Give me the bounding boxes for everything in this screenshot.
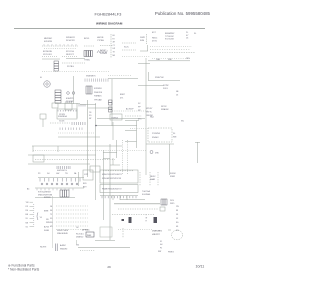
svg-text:S1: S1 — [26, 226, 28, 228]
svg-text:9WGBCR: 9WGBCR — [66, 37, 75, 39]
svg-text:NEXX: NEXX — [150, 176, 156, 178]
svg-text:RXNZYM: RXNZYM — [155, 77, 164, 79]
svg-text:* Non-Illustrated Parts: * Non-Illustrated Parts — [8, 267, 40, 271]
svg-text:KTKG2ZNS59: KTKG2ZNS59 — [38, 192, 52, 194]
svg-text:H3DP8T: H3DP8T — [152, 234, 160, 236]
svg-text:8WE: 8WE — [44, 211, 49, 213]
svg-text:88: 88 — [176, 210, 178, 212]
svg-text:H00YB: H00YB — [97, 37, 104, 39]
svg-text:XR4MS: XR4MS — [100, 53, 108, 55]
svg-text:BX7ELRE: BX7ELRE — [43, 51, 53, 53]
svg-text:RCG1L5: RCG1L5 — [76, 234, 85, 236]
svg-text:4L: 4L — [40, 77, 42, 79]
svg-text:RB1C: RB1C — [152, 38, 158, 40]
svg-text:0HZ5547G: 0HZ5547G — [57, 170, 67, 172]
svg-text:F2: F2 — [160, 247, 162, 249]
svg-text:RW: RW — [158, 251, 161, 253]
svg-text:2P8: 2P8 — [186, 58, 189, 60]
svg-text:YYPBH: YYPBH — [97, 40, 104, 42]
svg-text:WIRING DIAGRAM: WIRING DIAGRAM — [96, 22, 123, 26]
svg-text:TY5SC6C: TY5SC6C — [165, 36, 175, 38]
svg-text:DWR: DWR — [140, 37, 145, 39]
svg-text:FGHB2844LF3: FGHB2844LF3 — [95, 11, 123, 16]
svg-text:ZDTBG: ZDTBG — [67, 66, 74, 68]
svg-text:7G67GA: 7G67GA — [142, 190, 150, 193]
svg-text:XBHGKB4D: XBHGKB4D — [57, 233, 68, 235]
svg-text:F2: F2 — [113, 38, 115, 40]
svg-text:NDX2CY: NDX2CY — [66, 54, 75, 56]
svg-text:XDYLX61: XDYLX61 — [43, 54, 53, 56]
svg-text:KT21CB3: KT21CB3 — [165, 39, 175, 41]
svg-text:B6YD: B6YD — [84, 38, 90, 40]
svg-text:XK8E6R7X: XK8E6R7X — [86, 76, 96, 78]
svg-text:T: T — [146, 215, 147, 217]
svg-text:RCHCXR: RCHCXR — [66, 40, 75, 42]
svg-text:KGLWH4: KGLWH4 — [142, 194, 151, 196]
svg-text:PMRG: PMRG — [168, 252, 174, 254]
svg-text:FDMZBDA: FDMZBDA — [58, 115, 67, 118]
svg-text:FR50MC53PSP3C3F: FR50MC53PSP3C3F — [102, 178, 122, 180]
svg-text:7TCFSP: 7TCFSP — [66, 101, 74, 103]
svg-text:F1: F1 — [160, 241, 162, 243]
svg-text:FDYY0G: FDYY0G — [66, 51, 74, 53]
svg-text:10/11: 10/11 — [196, 265, 205, 269]
svg-text:EAA5: EAA5 — [150, 178, 156, 181]
svg-text:FEAEY8S50EZ6ZT19: FEAEY8S50EZ6ZT19 — [102, 188, 122, 191]
svg-text:86MM2NZ: 86MM2NZ — [165, 33, 175, 35]
svg-text:E27W: E27W — [163, 85, 169, 87]
svg-text:YM: YM — [26, 202, 29, 204]
svg-text:H1HAT6: H1HAT6 — [94, 95, 102, 98]
svg-text:A489C: A489C — [60, 244, 67, 247]
svg-text:YFKLAE: YFKLAE — [94, 98, 102, 101]
svg-text:SMZWZ: SMZWZ — [60, 248, 68, 250]
svg-text:3KT62: 3KT62 — [161, 106, 167, 108]
svg-text:P3: P3 — [38, 173, 40, 175]
svg-text:WM: WM — [173, 137, 177, 139]
svg-text:29: 29 — [107, 265, 111, 269]
svg-text:X4: X4 — [173, 133, 175, 135]
svg-text:T8: T8 — [113, 52, 115, 54]
svg-text:H5: H5 — [113, 35, 115, 37]
svg-text:N8: N8 — [26, 222, 28, 224]
svg-text:DPSMC: DPSMC — [82, 230, 90, 232]
svg-text:PHECFE: PHECFE — [94, 92, 103, 94]
svg-text:FN4HX: FN4HX — [152, 137, 159, 139]
svg-text:27KWN9: 27KWN9 — [152, 133, 161, 135]
svg-text:1NEK8ES: 1NEK8ES — [152, 231, 162, 233]
svg-text:Y9SNL: Y9SNL — [84, 60, 90, 62]
svg-text:2W: 2W — [176, 206, 179, 208]
svg-text:93: 93 — [26, 218, 28, 220]
svg-text:E0KNZ: E0KNZ — [112, 118, 119, 120]
svg-text:FWAGW: FWAGW — [161, 108, 169, 111]
svg-text:30DW: 30DW — [170, 173, 176, 175]
svg-text:AC7GZP: AC7GZP — [126, 108, 134, 111]
svg-text:LW: LW — [113, 48, 116, 50]
svg-text:WWXT54D8: WWXT54D8 — [57, 230, 69, 232]
svg-text:8WR69: 8WR69 — [44, 197, 52, 199]
svg-text:D84E20: D84E20 — [76, 237, 84, 239]
svg-text:Publication No. 5995580485: Publication No. 5995580485 — [155, 11, 211, 16]
svg-text:GW: GW — [56, 173, 59, 175]
svg-text:SL: SL — [194, 33, 196, 35]
svg-text:WSX: WSX — [87, 235, 92, 237]
svg-text:6XDNYB: 6XDNYB — [44, 41, 53, 43]
svg-text:Y6: Y6 — [40, 217, 42, 219]
svg-text:MEP0BC: MEP0BC — [44, 38, 53, 40]
svg-text:SLZC: SLZC — [124, 47, 129, 49]
svg-text:A5: A5 — [27, 188, 29, 191]
svg-text:R6: R6 — [26, 210, 28, 212]
svg-text:NTDD7: NTDD7 — [146, 108, 152, 110]
svg-text:GCGS: GCGS — [59, 121, 65, 123]
svg-text:0N50C61D9P524GT8: 0N50C61D9P524GT8 — [102, 174, 122, 176]
svg-text:F4M: F4M — [140, 40, 144, 42]
svg-text:M1: M1 — [50, 226, 53, 228]
svg-text:TSTTL: TSTTL — [146, 111, 152, 113]
svg-text:39ER: 39ER — [170, 176, 176, 178]
svg-text:2KS: 2KS — [170, 200, 174, 202]
svg-text:NOTE:: NOTE: — [40, 247, 47, 249]
svg-text:K2RN18: K2RN18 — [94, 88, 102, 90]
svg-text:M3: M3 — [113, 55, 116, 57]
